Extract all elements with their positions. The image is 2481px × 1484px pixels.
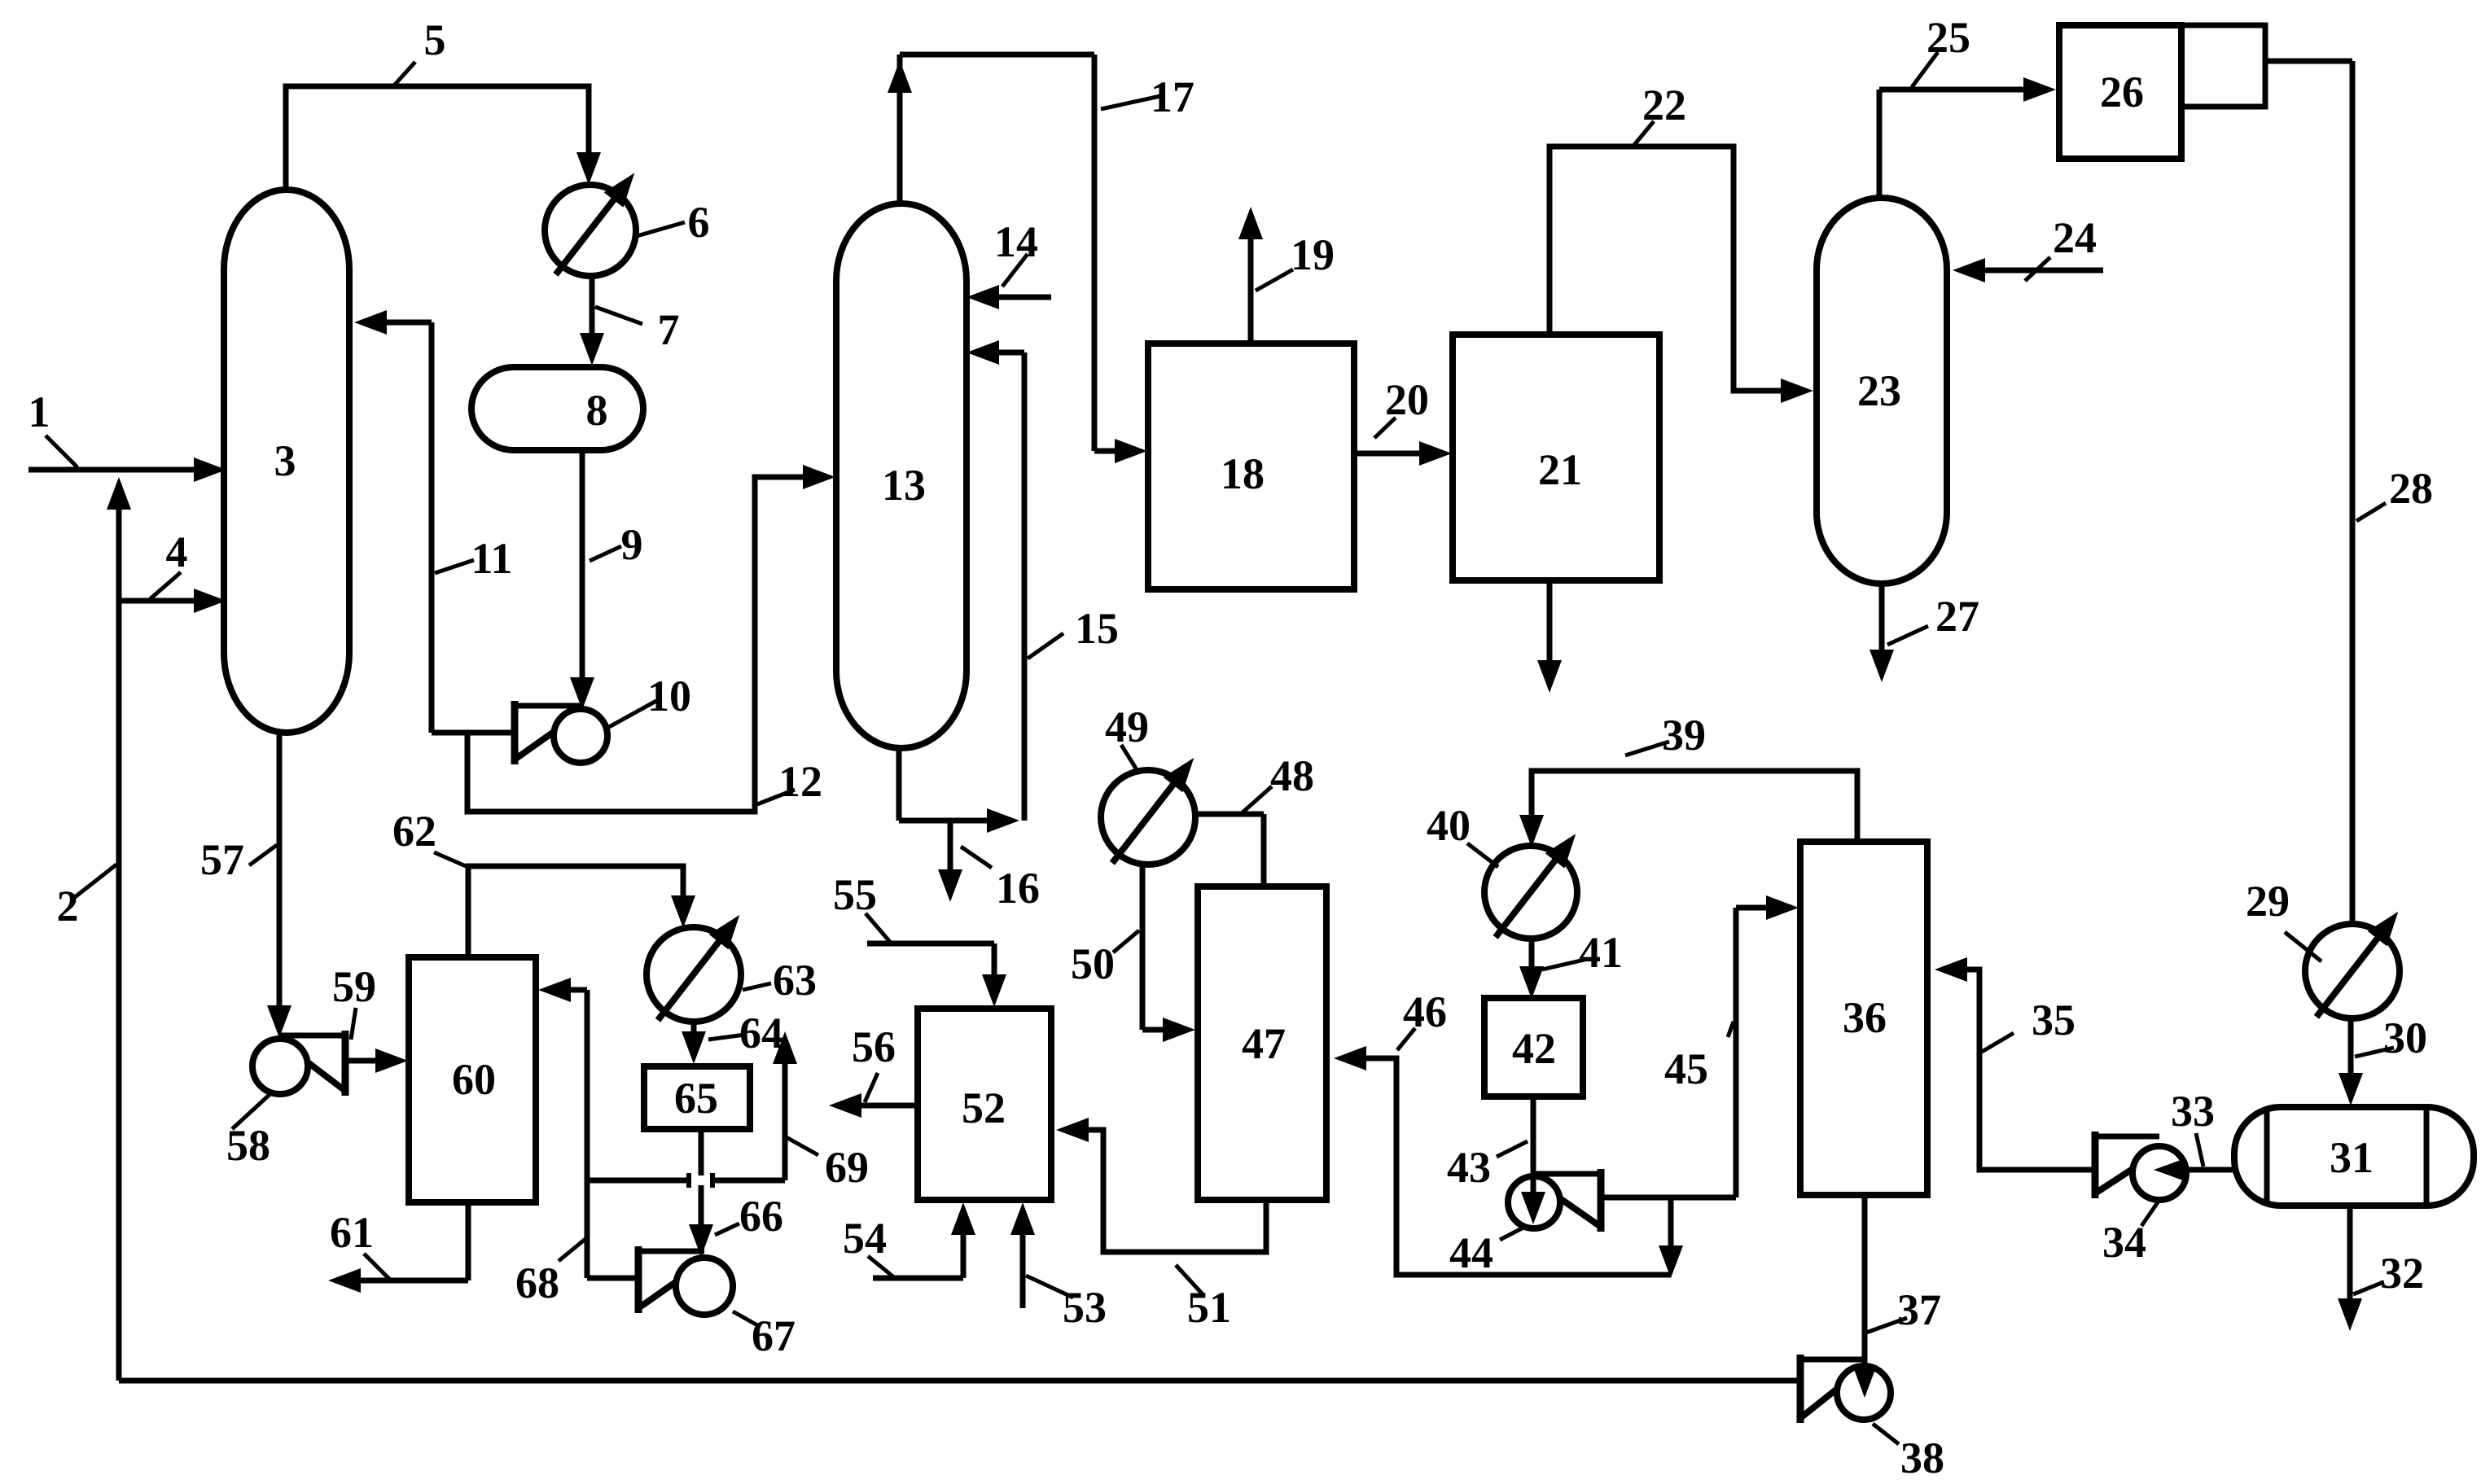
svg-text:52: 52 — [962, 1083, 1006, 1132]
svg-text:65: 65 — [674, 1074, 718, 1123]
svg-text:37: 37 — [1897, 1285, 1941, 1334]
svg-text:14: 14 — [994, 217, 1038, 266]
svg-text:41: 41 — [1579, 928, 1623, 977]
svg-text:68: 68 — [515, 1259, 559, 1307]
svg-text:66: 66 — [739, 1192, 783, 1241]
svg-text:67: 67 — [752, 1311, 796, 1360]
svg-text:55: 55 — [833, 870, 877, 919]
svg-text:54: 54 — [843, 1214, 887, 1263]
svg-text:61: 61 — [330, 1208, 374, 1257]
svg-text:36: 36 — [1843, 993, 1887, 1042]
svg-text:69: 69 — [825, 1143, 869, 1192]
svg-text:18: 18 — [1221, 449, 1265, 498]
svg-text:7: 7 — [658, 305, 680, 354]
svg-text:6: 6 — [688, 198, 710, 247]
svg-text:17: 17 — [1151, 72, 1194, 121]
svg-text:28: 28 — [2389, 464, 2433, 513]
svg-text:29: 29 — [2246, 877, 2290, 926]
svg-text:58: 58 — [226, 1121, 270, 1170]
svg-text:42: 42 — [1512, 1024, 1556, 1073]
svg-text:64: 64 — [739, 1009, 783, 1057]
svg-text:31: 31 — [2330, 1133, 2374, 1182]
svg-text:24: 24 — [2053, 213, 2097, 262]
svg-text:63: 63 — [773, 956, 817, 1005]
svg-text:27: 27 — [1935, 592, 1979, 641]
svg-text:50: 50 — [1071, 939, 1115, 988]
svg-text:46: 46 — [1403, 987, 1447, 1036]
svg-text:51: 51 — [1187, 1283, 1231, 1332]
svg-text:16: 16 — [996, 864, 1040, 913]
svg-text:3: 3 — [274, 436, 296, 485]
svg-text:47: 47 — [1242, 1019, 1286, 1068]
svg-text:11: 11 — [471, 534, 512, 583]
svg-text:49: 49 — [1105, 703, 1149, 751]
svg-text:39: 39 — [1662, 711, 1706, 760]
svg-text:2: 2 — [57, 882, 79, 930]
svg-text:33: 33 — [2171, 1087, 2215, 1136]
svg-text:10: 10 — [647, 672, 691, 720]
svg-text:56: 56 — [852, 1022, 896, 1071]
svg-text:15: 15 — [1075, 604, 1119, 653]
svg-text:20: 20 — [1385, 375, 1429, 424]
svg-text:21: 21 — [1538, 445, 1582, 494]
svg-text:13: 13 — [882, 461, 926, 510]
svg-text:53: 53 — [1063, 1283, 1107, 1332]
svg-text:26: 26 — [2100, 68, 2144, 116]
svg-text:62: 62 — [392, 807, 436, 856]
svg-text:19: 19 — [1291, 230, 1335, 279]
svg-text:9: 9 — [621, 520, 643, 569]
svg-text:34: 34 — [2102, 1218, 2146, 1267]
svg-text:60: 60 — [452, 1055, 496, 1104]
svg-text:5: 5 — [424, 15, 446, 64]
svg-text:23: 23 — [1857, 366, 1901, 415]
svg-text:44: 44 — [1449, 1228, 1493, 1277]
svg-text:48: 48 — [1270, 751, 1314, 800]
svg-text:45: 45 — [1664, 1044, 1708, 1093]
svg-text:59: 59 — [332, 962, 376, 1011]
svg-text:43: 43 — [1447, 1143, 1491, 1192]
svg-text:1: 1 — [28, 387, 50, 436]
svg-text:57: 57 — [200, 835, 244, 884]
svg-text:22: 22 — [1642, 81, 1686, 129]
svg-text:12: 12 — [778, 757, 822, 806]
svg-text:38: 38 — [1900, 1434, 1944, 1482]
svg-text:30: 30 — [2383, 1013, 2427, 1062]
svg-text:25: 25 — [1927, 13, 1970, 62]
svg-text:35: 35 — [2032, 996, 2076, 1044]
svg-text:4: 4 — [166, 527, 188, 576]
svg-text:8: 8 — [586, 386, 608, 435]
svg-text:32: 32 — [2380, 1249, 2424, 1298]
svg-text:40: 40 — [1427, 801, 1471, 850]
